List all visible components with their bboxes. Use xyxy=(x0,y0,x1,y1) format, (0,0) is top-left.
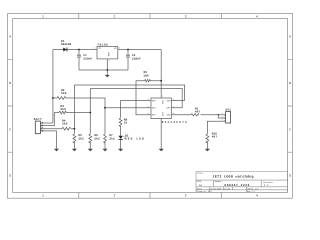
svg-text:Number:: Number: xyxy=(215,180,223,183)
svg-text:6: 6 xyxy=(173,105,174,108)
svg-text:A: A xyxy=(9,35,11,39)
svg-text:78L05: 78L05 xyxy=(97,44,108,47)
svg-text:8: 8 xyxy=(119,47,120,50)
svg-text:220nF: 220nF xyxy=(83,58,92,61)
svg-text:JETI LOGO watchdog: JETI LOGO watchdog xyxy=(212,174,253,179)
svg-text:RED LED: RED LED xyxy=(125,138,144,141)
svg-text:R5: R5 xyxy=(144,71,148,74)
svg-text:2: 2 xyxy=(113,194,115,198)
svg-text:2: 2 xyxy=(222,115,223,118)
svg-text:SV1: SV1 xyxy=(225,109,231,112)
svg-text:3: 3 xyxy=(185,194,187,198)
svg-text:4k7: 4k7 xyxy=(212,135,218,139)
svg-text:4: 4 xyxy=(256,194,258,198)
svg-text:Drawn by: M.S.: Drawn by: M.S. xyxy=(197,190,213,193)
svg-text:C: C xyxy=(289,127,291,131)
svg-text:BATT: BATT xyxy=(34,118,42,121)
svg-text:2: 2 xyxy=(113,14,115,18)
svg-text:1: 1 xyxy=(94,47,95,50)
svg-text:5: 5 xyxy=(173,112,174,115)
svg-text:B: B xyxy=(289,81,291,85)
svg-text:2k2: 2k2 xyxy=(109,136,115,140)
svg-text:4: 4 xyxy=(256,14,258,18)
svg-text:4: 4 xyxy=(148,112,149,115)
svg-text:2: 2 xyxy=(109,60,110,63)
svg-text:1: 1 xyxy=(222,112,223,115)
svg-text:D: D xyxy=(289,174,291,178)
svg-text:1: 1 xyxy=(42,14,44,18)
svg-text:5k6: 5k6 xyxy=(60,107,66,111)
svg-text:1k: 1k xyxy=(124,121,128,125)
svg-text:3: 3 xyxy=(148,105,149,108)
svg-text:2k2: 2k2 xyxy=(94,136,100,140)
svg-text:2: 2 xyxy=(42,123,43,126)
svg-text:1N4148: 1N4148 xyxy=(61,43,72,46)
svg-text:3: 3 xyxy=(222,119,223,122)
svg-text:3: 3 xyxy=(42,126,43,129)
svg-text:D: D xyxy=(9,174,11,178)
svg-text:7: 7 xyxy=(173,98,174,101)
svg-text:220nF: 220nF xyxy=(132,58,141,61)
svg-text:4: 4 xyxy=(42,128,43,131)
svg-text:5k6: 5k6 xyxy=(62,121,68,125)
svg-text:2k2: 2k2 xyxy=(78,136,84,140)
svg-text:B: B xyxy=(9,81,11,85)
svg-text:A: A xyxy=(289,35,291,39)
svg-text:PIC12F675: PIC12F675 xyxy=(162,121,187,124)
svg-text:C: C xyxy=(9,127,11,131)
svg-text:19:03: 19:03 xyxy=(224,187,231,190)
svg-text:TITLE:: TITLE: xyxy=(197,172,204,175)
svg-text:4k7: 4k7 xyxy=(195,109,201,113)
svg-text:1: 1 xyxy=(42,121,43,124)
svg-text:GND: GND xyxy=(107,52,110,57)
svg-text:2: 2 xyxy=(148,98,149,101)
svg-text:Rev:1.1: Rev:1.1 xyxy=(247,190,256,193)
svg-text:8: 8 xyxy=(162,120,163,123)
svg-text:1.1: 1.1 xyxy=(264,184,269,187)
svg-text:1: 1 xyxy=(42,194,44,198)
svg-text:18k: 18k xyxy=(143,74,149,78)
svg-text:3: 3 xyxy=(185,14,187,18)
svg-text:5k6: 5k6 xyxy=(61,91,67,95)
svg-text:1: 1 xyxy=(162,95,163,98)
